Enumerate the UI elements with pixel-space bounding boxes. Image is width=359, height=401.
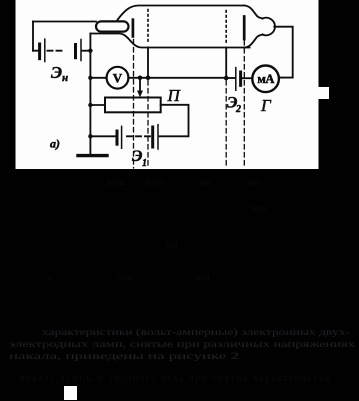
svg-text:воль: воль	[107, 177, 124, 187]
svg-text:электродных ламп, снятые при р: электродных ламп, снятые при различных н…	[9, 339, 356, 349]
svg-text:1: 1	[142, 158, 147, 169]
svg-text:нес: нес	[200, 177, 213, 187]
svg-text:пол: пол	[196, 272, 210, 282]
svg-text:этн: этн	[165, 240, 178, 250]
svg-text:характеристики (вольт-амперные: характеристики (вольт-амперные) электрон…	[42, 327, 350, 337]
svg-text:накала лампы и анодного тока п: накала лампы и анодного тока при снятии …	[20, 373, 331, 383]
svg-text:накала, приведены на рисунке 2: накала, приведены на рисунке 2	[9, 351, 239, 361]
svg-text:Г: Г	[260, 96, 272, 115]
svg-text:Э: Э	[51, 63, 62, 82]
svg-text:2: 2	[235, 104, 241, 115]
svg-text:а): а)	[50, 137, 60, 151]
svg-text:эмис: эмис	[118, 272, 136, 282]
svg-text:мА: мА	[257, 72, 274, 86]
svg-text:мка: мка	[253, 203, 267, 213]
svg-text:П: П	[167, 86, 182, 105]
svg-text:н: н	[62, 72, 68, 84]
svg-text:V: V	[113, 71, 123, 86]
svg-text:ботн: ботн	[145, 177, 163, 187]
svg-text:нет: нет	[248, 177, 261, 187]
svg-text:Э: Э	[132, 148, 142, 165]
svg-text:а: а	[48, 272, 52, 282]
